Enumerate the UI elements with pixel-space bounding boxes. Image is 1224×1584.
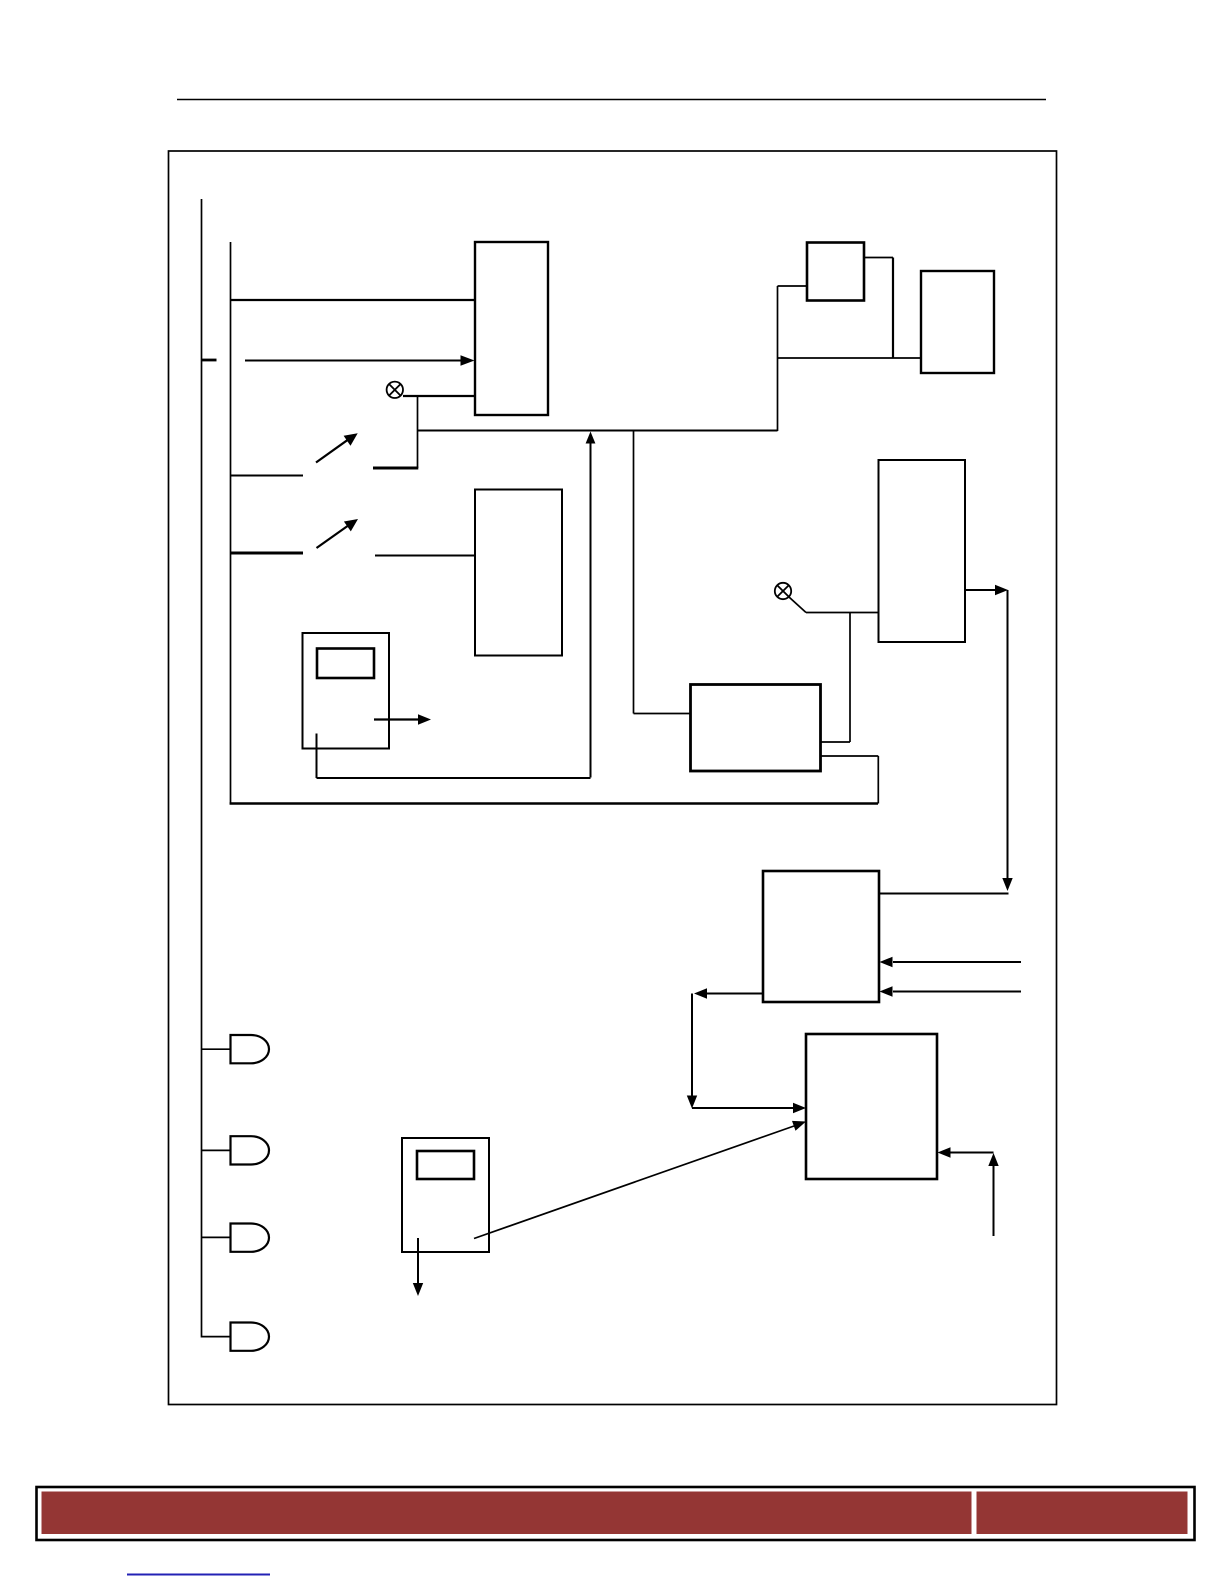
bottom bus wire bbox=[230, 802, 878, 805]
arrow into box6 left bbox=[692, 1107, 793, 1109]
box3 bottom drop bbox=[316, 734, 318, 779]
stub on bus 1 bbox=[202, 359, 217, 362]
riser to boxA bbox=[777, 286, 779, 431]
banner border bbox=[37, 1487, 1195, 1540]
stub to bell 3 bbox=[202, 1236, 231, 1238]
stub to bell 1 bbox=[202, 1048, 231, 1050]
diagram frame bbox=[169, 151, 1057, 1405]
lamp L2 bbox=[775, 583, 791, 599]
diagonal arrow box7 to box6 bbox=[474, 1126, 794, 1239]
box3 inner window bbox=[317, 649, 374, 679]
arrow into box5 right upper bbox=[893, 961, 1021, 963]
switch S2 right contact bbox=[375, 555, 475, 557]
wire riser to boxA left bbox=[778, 285, 808, 287]
wire lamp L2 to box4 bbox=[806, 612, 878, 614]
switch S2 arm bbox=[317, 523, 353, 549]
wire drop from box4 arrow bbox=[1007, 590, 1009, 879]
banner cell left bbox=[42, 1492, 972, 1535]
wire boxA drop bbox=[892, 258, 894, 359]
long wire A bbox=[418, 430, 778, 432]
boxB bbox=[921, 271, 994, 373]
drop wire x692 bbox=[691, 994, 693, 1097]
wire drop from lamp node bbox=[417, 396, 419, 468]
up arrow riser bbox=[590, 443, 592, 778]
box7 inner window bbox=[417, 1151, 474, 1179]
switch S2 left contact bbox=[231, 552, 304, 555]
bus 2 (second vertical) bbox=[230, 242, 232, 805]
bus 1 (left vertical) bbox=[201, 199, 203, 1338]
box2 bbox=[475, 490, 562, 656]
wire boxM right lower bbox=[821, 755, 878, 757]
bell 4 bbox=[231, 1323, 270, 1351]
bell 3 bbox=[231, 1224, 270, 1252]
banner cell right bbox=[977, 1492, 1188, 1535]
box5 left out arrow bbox=[707, 993, 763, 995]
arrow wire into box1 bbox=[245, 360, 462, 362]
hyperlink rule bbox=[127, 1574, 270, 1576]
arrow into box5 right lower bbox=[893, 991, 1021, 993]
drop wire to boxM bbox=[633, 431, 635, 714]
wire to boxB bbox=[778, 357, 922, 359]
boxM bbox=[691, 685, 821, 772]
stub to bell 4 bbox=[202, 1336, 231, 1338]
box4 out arrow bbox=[965, 589, 996, 591]
lamp L2 lead bbox=[789, 597, 806, 613]
box3 bbox=[303, 633, 390, 749]
wire bus2 to box1 bbox=[231, 299, 476, 301]
bell 2 bbox=[231, 1136, 270, 1164]
box7 bbox=[402, 1138, 489, 1252]
wire box5 right to drop bbox=[879, 893, 1009, 895]
box6 right wire riser bbox=[993, 1166, 995, 1236]
drop to bottom bus wire bbox=[877, 756, 879, 804]
switch S1 arm bbox=[316, 437, 352, 463]
stub to bell 2 bbox=[202, 1149, 231, 1151]
arrow into box6 right bbox=[950, 1152, 994, 1154]
box7 down arrow bbox=[417, 1238, 419, 1283]
lamp L1 bbox=[387, 382, 403, 398]
wire into boxM left bbox=[634, 713, 691, 715]
wire lamp L1 to box1 bbox=[403, 395, 475, 397]
box3 out arrow bbox=[374, 718, 418, 720]
junction drop x850 bbox=[849, 613, 851, 743]
switch S1 left contact bbox=[231, 475, 304, 477]
wire into boxM right upper bbox=[821, 741, 850, 743]
wire boxA right bbox=[864, 257, 893, 259]
bell 1 bbox=[231, 1035, 270, 1063]
wire box3 to up-arrow riser bbox=[317, 777, 591, 779]
switch S1 right contact bbox=[373, 467, 418, 470]
box5 bbox=[763, 871, 879, 1002]
boxA bbox=[807, 243, 864, 301]
header rule bbox=[177, 99, 1046, 101]
box1 bbox=[475, 242, 548, 415]
box4 bbox=[879, 460, 966, 642]
box6 bbox=[806, 1034, 937, 1179]
